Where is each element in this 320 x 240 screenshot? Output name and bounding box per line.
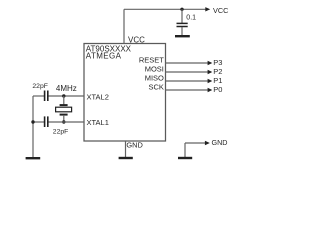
ground (left) [26, 157, 41, 159]
wire XTAL2 right segment [48, 95, 84, 97]
ground (under U1) [119, 157, 133, 159]
svg-text:VCC: VCC [128, 35, 145, 44]
wire XTAL1 left segment [33, 121, 44, 123]
node VCC junction dot [180, 8, 183, 11]
svg-text:0.1: 0.1 [186, 14, 196, 21]
wire GND from U1 bottom [125, 141, 127, 157]
P3 arrow [208, 61, 213, 66]
capacitor C3 22pF (bottom) [45, 116, 48, 127]
svg-text:GND: GND [126, 140, 142, 149]
capacitor C2 22pF (top) [45, 91, 48, 102]
GND arrow [205, 141, 210, 145]
wire VCC vertical into U1 top [123, 9, 125, 43]
VCC power arrow [205, 7, 210, 11]
svg-text:GND: GND [212, 138, 228, 147]
svg-text:MISO: MISO [145, 74, 164, 83]
wire VCC horizontal rail [124, 8, 206, 10]
wire XTAL2 left segment [33, 95, 44, 97]
wire GND flag horizontal [185, 142, 206, 144]
svg-text:22pF: 22pF [53, 129, 69, 136]
wire C1 top lead [181, 9, 183, 23]
P1 arrow [208, 79, 213, 84]
wire MOSI to P2 [166, 71, 209, 73]
IC U1 microcontroller AT90SXXXX ATMEGA body [84, 44, 166, 142]
svg-text:P2: P2 [213, 67, 222, 76]
svg-text:XTAL2: XTAL2 [87, 92, 109, 101]
P0 arrow [208, 88, 213, 93]
svg-text:MOSI: MOSI [145, 65, 164, 74]
capacitor C1 0.1 [177, 23, 188, 26]
node XTAL1 junction dot (crystal) [62, 120, 65, 123]
P2 arrow [208, 70, 213, 75]
wire left vertical (caps common) [32, 96, 34, 157]
wire GND flag vertical [184, 143, 186, 157]
svg-text:P1: P1 [213, 76, 222, 85]
svg-text:P3: P3 [213, 58, 222, 67]
wire RESET to P3 [166, 62, 209, 64]
svg-text:4MHz: 4MHz [56, 84, 77, 93]
wire crystal top lead [63, 96, 65, 105]
wire SCK to P0 [166, 89, 209, 91]
wire MISO to P1 [166, 80, 209, 82]
svg-text:22pF: 22pF [32, 83, 48, 90]
svg-text:SCK: SCK [148, 83, 163, 92]
svg-text:P0: P0 [213, 85, 222, 94]
node XTAL2 junction dot [62, 94, 65, 97]
node left junction dot [31, 120, 34, 123]
ground (right flag) [178, 157, 192, 159]
wire XTAL1 right segment [48, 121, 84, 123]
svg-text:RESET: RESET [139, 56, 164, 65]
svg-text:ATMEGA: ATMEGA [86, 52, 122, 61]
crystal Y1 4MHz [56, 105, 72, 115]
svg-text:XTAL1: XTAL1 [87, 118, 109, 127]
svg-text:VCC: VCC [213, 6, 228, 15]
ground (under C1) [175, 35, 190, 37]
wire crystal bottom lead [63, 115, 65, 122]
wire C1 bottom lead [181, 27, 183, 35]
